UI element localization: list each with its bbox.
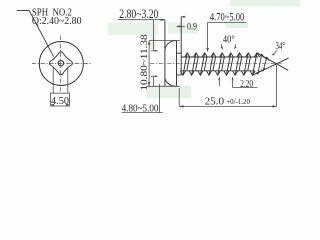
- horizontal centerline (side view): [150, 63, 282, 65]
- neck bottom edge: [177, 74, 182, 76]
- dimension line 4.70~5.00: [208, 21, 247, 23]
- head seat face: [176, 41, 178, 87]
- extension segment lower left: [153, 76, 155, 86]
- dimension line 25.0: [179, 105, 276, 107]
- background highlight patch C: [150, 29, 156, 49]
- svg-text:2.80~3.20: 2.80~3.20: [119, 7, 158, 21]
- background highlight patch A: [108, 23, 158, 35]
- dimension line 4.80~5.00: [122, 112, 163, 114]
- extension line 4.80~5.00: [159, 84, 161, 113]
- svg-text:0.9: 0.9: [187, 22, 197, 33]
- recess dimension extension line left: [52, 67, 54, 93]
- thread flank lines: [183, 53, 257, 75]
- vertical centerline (front view): [60, 36, 62, 94]
- svg-text:34°: 34°: [276, 40, 286, 52]
- svg-text:10.80~11.38: 10.80~11.38: [139, 34, 150, 90]
- background highlight patch D: [168, 23, 197, 34]
- extension line 25.0 right: [276, 65, 278, 106]
- extension line head bottom: [147, 85, 180, 87]
- svg-text:40°: 40°: [223, 34, 235, 46]
- dimension arrow in box left: [50, 104, 54, 106]
- tip small thread crests: [256, 54, 269, 74]
- svg-text:4.80~5.00: 4.80~5.00: [122, 102, 159, 114]
- tip flank lines: [258, 54, 267, 74]
- head bottom corner arc: [165, 78, 176, 86]
- thread start face + extension up: [180, 17, 182, 75]
- apex flat lower tick: [151, 75, 156, 77]
- svg-text:2.20: 2.20: [240, 79, 253, 90]
- background highlight patch F: [225, 20, 248, 28]
- thread top crest profile: [185, 53, 260, 57]
- thread bottom crest profile: [180, 71, 255, 75]
- thread root top line: [181, 56, 258, 58]
- dimension box 4.50: [50, 93, 69, 106]
- recess dimension extension line right: [67, 67, 69, 93]
- pitch marker right + shelf: [233, 77, 258, 87]
- extension line x=153.6: [153, 20, 155, 50]
- thread root bottom line: [181, 70, 254, 72]
- head apex face: [164, 20, 166, 87]
- svg-text:+0/-1.20: +0/-1.20: [226, 97, 250, 106]
- background highlight patch B: [146, 86, 191, 98]
- 0.9 shelf line: [181, 16, 186, 18]
- svg-text:Q:2.40~2.80: Q:2.40~2.80: [32, 15, 82, 27]
- dimension arrow in box right: [66, 104, 70, 106]
- svg-text:25.0: 25.0: [205, 96, 225, 107]
- head outline circle: [39, 42, 83, 86]
- 34 deg arc arrow: [273, 50, 277, 54]
- dimension line 2.80~3.20: [118, 19, 165, 21]
- head diameter dimension line: [148, 41, 150, 87]
- head top corner arc: [165, 41, 176, 51]
- 40 deg right arc arrow: [234, 44, 237, 49]
- neck top edge: [177, 52, 182, 54]
- tip cone upper edge extended: [257, 53, 288, 70]
- extension line 25.0 left: [178, 88, 180, 106]
- background highlight patch E: [230, 0, 300, 7]
- leader line to recess: [17, 11, 54, 57]
- extension line head top: [149, 40, 180, 42]
- phillips recess outline: [50, 52, 72, 74]
- 40 deg left arc arrow: [221, 44, 222, 49]
- 0.9 leader line: [177, 25, 186, 27]
- recess center circle: [58, 61, 63, 66]
- horizontal centerline (front view): [32, 62, 92, 64]
- svg-text:4.70~5.00: 4.70~5.00: [210, 12, 245, 24]
- tip cone lower edge extended: [253, 58, 289, 75]
- extension 4.70~5.00 down: [207, 22, 209, 49]
- pitch marker left: [218, 77, 220, 86]
- apex flat upper tick: [151, 50, 156, 52]
